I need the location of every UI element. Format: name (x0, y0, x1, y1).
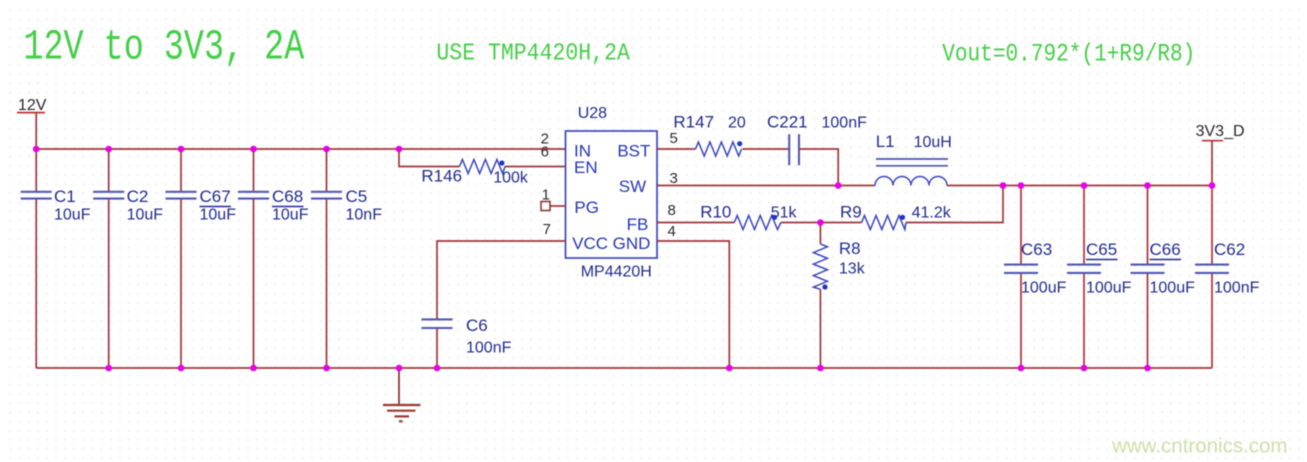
capacitor C68 (238, 149, 309, 368)
formula Vout (942, 40, 1195, 68)
svg-text:41.2k: 41.2k (912, 205, 952, 222)
resistor R146 (421, 160, 528, 187)
capacitor C2 (93, 149, 163, 368)
svg-text:MP4420H: MP4420H (581, 264, 652, 281)
svg-text:10uF: 10uF (200, 207, 237, 224)
svg-text:6: 6 (541, 143, 549, 160)
svg-text:10nF: 10nF (346, 207, 383, 224)
junction dots bottom bus (105, 365, 1150, 372)
svg-text:R9: R9 (840, 203, 862, 222)
svg-text:3V3_D: 3V3_D (1196, 123, 1245, 140)
svg-text:100nF: 100nF (1214, 279, 1260, 296)
svg-text:100k: 100k (493, 170, 529, 187)
wire GND pin drop (657, 241, 729, 368)
svg-text:C1: C1 (54, 187, 76, 206)
svg-text:R146: R146 (421, 167, 462, 186)
inductor L1 (875, 132, 952, 186)
svg-text:FB: FB (627, 215, 649, 234)
svg-text:C66: C66 (1150, 240, 1181, 259)
svg-text:10uF: 10uF (272, 207, 309, 224)
junction dots SW/output line (835, 182, 1215, 189)
wire 12V stem (35, 113, 37, 149)
svg-text:BST: BST (617, 142, 650, 161)
capacitor C66 (1131, 186, 1196, 369)
svg-text:PG: PG (574, 198, 599, 217)
svg-text:20: 20 (728, 114, 746, 131)
svg-text:100uF: 100uF (1086, 279, 1132, 296)
svg-text:5: 5 (670, 130, 678, 147)
svg-text:R10: R10 (700, 203, 731, 222)
resistor R147 (673, 112, 745, 156)
svg-text:100uF: 100uF (1150, 279, 1196, 296)
svg-text:C2: C2 (127, 187, 149, 206)
wire C221 to SW node (799, 149, 838, 186)
capacitor C65 (1067, 186, 1132, 369)
svg-text:C6: C6 (466, 316, 488, 335)
svg-text:100nF: 100nF (466, 340, 512, 357)
svg-text:12V to 3V3, 2A: 12V to 3V3, 2A (23, 24, 304, 72)
svg-text:13k: 13k (839, 260, 866, 277)
svg-text:C62: C62 (1214, 240, 1245, 259)
port 12V (17, 97, 47, 114)
svg-text:C67: C67 (200, 187, 231, 206)
svg-text:R8: R8 (839, 239, 861, 258)
svg-text:L1: L1 (876, 132, 895, 151)
svg-text:12V: 12V (18, 97, 47, 114)
wire BST (657, 148, 789, 150)
wire bottom bus (36, 367, 1212, 369)
junction dots top bus (33, 146, 402, 153)
svg-text:C63: C63 (1021, 240, 1052, 259)
svg-text:8: 8 (668, 202, 676, 219)
svg-text:100uF: 100uF (1021, 279, 1067, 296)
port 3V3_D (1196, 123, 1245, 186)
capacitor C5 (311, 149, 382, 368)
svg-text:www.cntronics.com: www.cntronics.com (1111, 435, 1287, 458)
svg-text:Vout=0.792*(1+R9/R8): Vout=0.792*(1+R9/R8) (942, 40, 1195, 68)
capacitor C6 (422, 316, 512, 368)
title text (23, 24, 304, 72)
resistor R10 (700, 203, 797, 230)
resistor R8 (813, 223, 865, 369)
pin PG stub and square (541, 202, 566, 211)
capacitor C221 (767, 112, 867, 165)
junction dot FB node (817, 219, 824, 226)
svg-text:C221: C221 (767, 112, 808, 131)
svg-text:U28: U28 (578, 105, 607, 122)
svg-text:R147: R147 (673, 112, 714, 131)
note USE TMP4420H,2A (436, 40, 630, 68)
capacitor C62 (1195, 186, 1260, 369)
svg-text:VCC: VCC (572, 234, 608, 253)
capacitor C63 (1004, 186, 1067, 369)
svg-text:10uF: 10uF (127, 207, 164, 224)
svg-text:USE TMP4420H,2A: USE TMP4420H,2A (436, 40, 630, 68)
wire FB (657, 186, 1003, 223)
svg-text:10uF: 10uF (54, 207, 91, 224)
svg-text:4: 4 (668, 223, 676, 240)
svg-text:10uH: 10uH (914, 134, 952, 151)
capacitor C1 (21, 149, 91, 368)
svg-text:100nF: 100nF (822, 114, 868, 131)
IC U28 box (566, 105, 658, 281)
svg-text:EN: EN (574, 158, 598, 177)
svg-text:C68: C68 (272, 187, 303, 206)
svg-text:7: 7 (543, 221, 551, 238)
svg-text:3: 3 (670, 170, 678, 187)
capacitor C67 (166, 149, 237, 368)
svg-text:C5: C5 (346, 187, 368, 206)
svg-text:C65: C65 (1086, 240, 1117, 259)
wire top 12V bus (36, 148, 565, 150)
resistor R9 (840, 203, 952, 230)
wire SW (657, 185, 1212, 187)
svg-text:GND: GND (613, 234, 651, 253)
wire EN tap (399, 149, 566, 167)
ground symbol (383, 368, 420, 421)
wire VCC to C6 (437, 241, 566, 319)
svg-text:SW: SW (619, 177, 646, 196)
